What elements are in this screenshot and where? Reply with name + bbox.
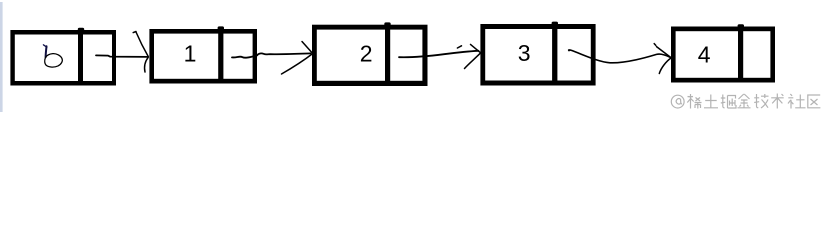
svg-text:3: 3 <box>518 40 531 66</box>
scribble in head node data field <box>43 45 62 67</box>
pointer arrow 3 to 4 : wire <box>569 50 671 63</box>
watermark char jin <box>738 94 751 108</box>
node box 1 <box>149 29 257 84</box>
pointer arrow 2 to 3 : wire <box>399 51 479 57</box>
node box 0 (head) <box>10 30 116 86</box>
node box 4 <box>671 27 775 83</box>
watermark char ji <box>754 94 768 108</box>
watermark @ glyph <box>671 95 684 108</box>
svg-text:4: 4 <box>698 42 711 68</box>
pointer arrow 0 to 1 : arrowhead <box>133 32 148 73</box>
pointer nub on node 3 <box>552 22 558 26</box>
pointer nub on node 2 <box>384 22 390 26</box>
svg-text:1: 1 <box>184 41 197 67</box>
pointer arrow 1 to 2 : wire <box>232 53 311 57</box>
pointer nub on node 4 <box>738 24 744 28</box>
watermark char she <box>788 94 806 109</box>
pointer nub on node 0 <box>78 28 84 32</box>
page left edge strip <box>0 2 3 112</box>
watermark char jue <box>721 95 736 109</box>
node box 3 <box>480 24 595 86</box>
watermark char qu <box>808 95 821 108</box>
pointer nub on node 1 <box>218 26 224 30</box>
watermark char xi <box>687 94 701 109</box>
pointer arrow 0 to 1 : wire <box>96 55 148 57</box>
watermark char shu <box>771 94 784 109</box>
pointer arrow 2 to 3 : tick <box>457 46 461 48</box>
svg-text:2: 2 <box>360 40 373 66</box>
node box 2 <box>312 25 428 86</box>
pointer arrow 1 to 2 : arrowhead <box>282 42 313 75</box>
watermark char tu <box>704 95 718 108</box>
pointer arrow 3 to 4 : arrowhead <box>654 44 671 74</box>
pointer arrow 2 to 3 : arrowhead <box>465 44 481 68</box>
